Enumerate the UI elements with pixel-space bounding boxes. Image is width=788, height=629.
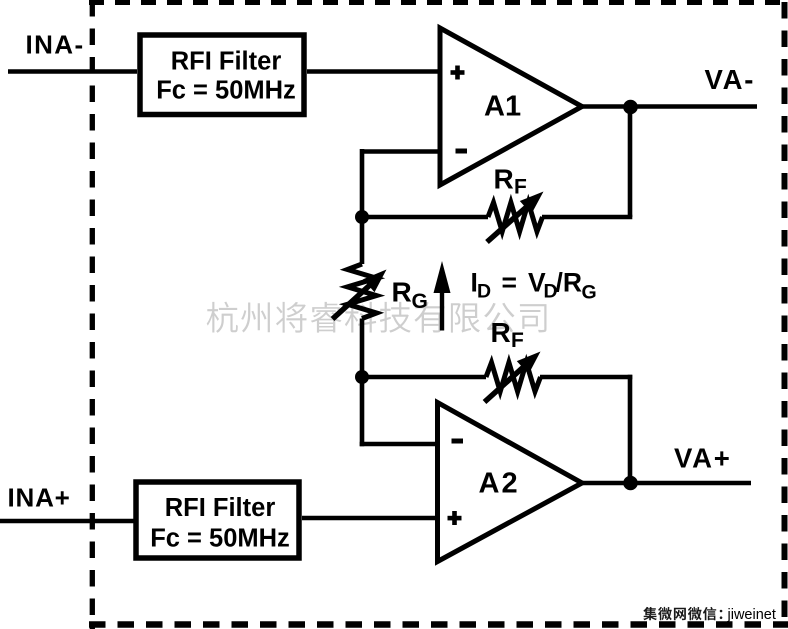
resistor RF1 zigzag (488, 203, 543, 232)
dashed border top (89, 0, 788, 5)
svg-text:VA+: VA+ (674, 443, 732, 474)
op-amp A1 (440, 28, 582, 185)
current arrow ID (434, 261, 451, 331)
wire A1 output to VA- (582, 104, 757, 109)
wire left vertical lower (360, 319, 365, 447)
junction dot A2 output (623, 476, 638, 491)
junction dot A1 output (623, 100, 638, 115)
A2 minus input symbol (452, 439, 464, 444)
wire filter1 to A1 + (307, 69, 441, 74)
op-amp A2 (438, 403, 583, 562)
svg-text:A1: A1 (484, 91, 521, 123)
svg-text:G: G (412, 290, 428, 313)
RFI filter box 1 (140, 35, 304, 115)
wire INA- input (8, 69, 137, 74)
arrow RF1 (487, 192, 544, 243)
wire RF1 left (360, 215, 488, 220)
svg-text:INA+: INA+ (8, 483, 71, 513)
junction dot RF1/RG (355, 210, 369, 224)
svg-text:RFI Filter: RFI Filter (171, 48, 282, 76)
svg-text:RFI Filter: RFI Filter (165, 494, 276, 522)
arrow RG (333, 270, 387, 320)
dashed border right (782, 2, 788, 629)
RFI filter box 2 (136, 482, 299, 558)
wire A2 - input (360, 442, 437, 447)
svg-text:D: D (477, 281, 491, 303)
svg-text:jiweinet: jiweinet (727, 607, 776, 623)
svg-text:R: R (392, 277, 412, 308)
watermark text (207, 302, 547, 333)
wire RF1 right (542, 215, 632, 220)
resistor RG zigzag (348, 264, 377, 319)
svg-text:VA-: VA- (705, 64, 756, 95)
svg-text:/R: /R (556, 268, 583, 298)
svg-text:R: R (494, 164, 514, 195)
label ID = VD/RG formula (471, 268, 597, 304)
wire RF2 right (540, 375, 632, 380)
svg-text:Fc = 50MHz: Fc = 50MHz (150, 525, 290, 553)
svg-text:INA-: INA- (26, 30, 85, 60)
svg-text:A2: A2 (479, 468, 520, 500)
svg-text:F: F (511, 329, 524, 352)
svg-text:R: R (491, 317, 511, 348)
wire left vertical upper (360, 149, 365, 264)
dashed border left (90, 0, 95, 629)
svg-text:Fc = 50MHz: Fc = 50MHz (156, 77, 296, 105)
wire INA+ input (0, 519, 136, 524)
wire right vertical RF1 (628, 104, 633, 217)
wire A1 - input (362, 149, 441, 154)
A1 plus input symbol (451, 66, 465, 80)
wire right vertical RF2 (628, 375, 633, 483)
dashed border bottom (89, 621, 788, 628)
svg-text:F: F (514, 176, 527, 199)
svg-text:=: = (502, 268, 517, 298)
arrow RF2 (485, 352, 541, 403)
A1 minus input symbol (456, 149, 468, 154)
wire RF2 left (360, 375, 486, 380)
junction dot RF2/RG (355, 370, 369, 384)
wire filter2 to A2 + (302, 516, 437, 521)
footer weixin text (643, 607, 776, 623)
A2 plus input symbol (448, 511, 462, 525)
svg-text:G: G (582, 282, 597, 304)
wire A2 output to VA+ (581, 481, 751, 486)
resistor RF2 zigzag (486, 363, 541, 392)
